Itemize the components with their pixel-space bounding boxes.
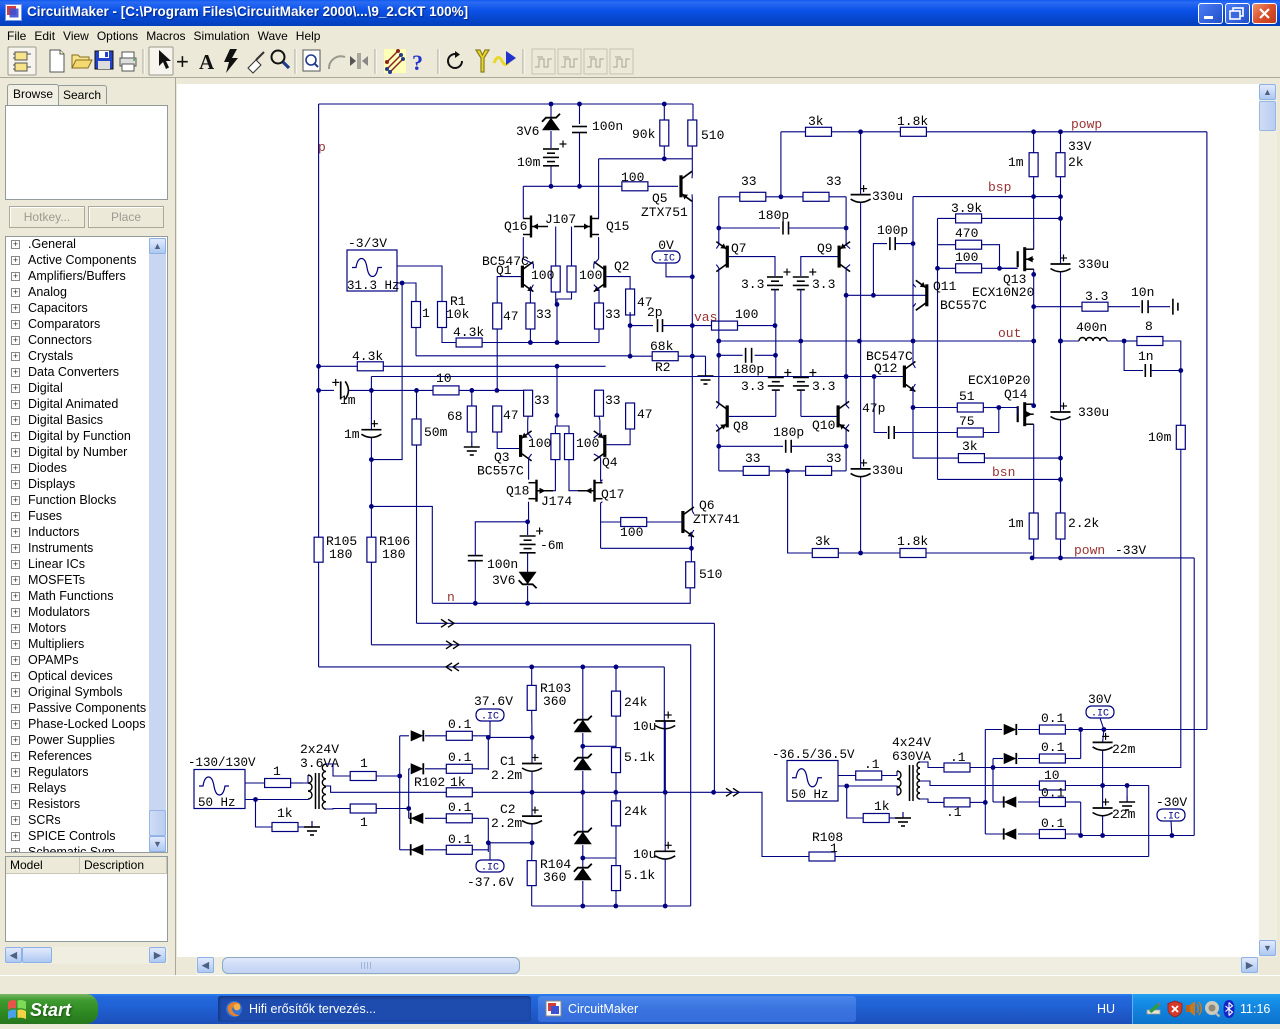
svg-text:3.3: 3.3: [741, 277, 764, 292]
svg-text:BC557C: BC557C: [940, 298, 987, 313]
wire Q11 base row: [846, 294, 927, 296]
capacitor 47p: [874, 377, 887, 433]
wire primary bottom: [256, 799, 304, 801]
battery cap 3.3 #2: [793, 276, 809, 278]
svg-text:10: 10: [1044, 768, 1060, 783]
svg-text:10n: 10n: [1131, 285, 1154, 300]
wire secondary top to 1 ohm: [326, 764, 350, 776]
resistor 33 row1 left: [740, 192, 766, 201]
svg-text:5.1k: 5.1k: [624, 750, 655, 765]
capacitor 330u #4: [1051, 411, 1071, 413]
capacitor 1n: [1124, 341, 1143, 371]
resistor R103 360: [531, 667, 533, 686]
wire Q5 emitter down (vas rail): [691, 194, 693, 276]
svg-text:-37.6V: -37.6V: [467, 875, 514, 890]
wire Q6 collector up to vas rail: [692, 511, 694, 514]
capacitor 330u #3: [1051, 263, 1071, 265]
svg-text:33: 33: [826, 451, 842, 466]
resistor 0.1 (b2 row2): [1039, 754, 1065, 763]
svg-text:22m: 22m: [1112, 807, 1136, 822]
svg-text:Q8: Q8: [733, 419, 749, 434]
wire pown row: [1033, 539, 1035, 558]
wire Q15 drain column: [598, 159, 600, 216]
resistor 1m upper: [1029, 153, 1038, 177]
svg-text:C1: C1: [500, 754, 516, 769]
wire bridge2 verticals: [984, 730, 986, 835]
svg-text:BC557C: BC557C: [477, 464, 524, 479]
wire bsp row: [913, 196, 1061, 198]
svg-text:CircuitMaker: CircuitMaker: [568, 1002, 638, 1016]
capacitor 1m vertical electrolytic: [370, 390, 372, 429]
svg-text:100: 100: [955, 250, 978, 265]
transistor Q6 ZTX741: [681, 511, 684, 533]
transistor Q12 BC547C: [903, 366, 906, 388]
svg-text:100: 100: [620, 525, 643, 540]
wire R106 tap to bus junction: [371, 506, 432, 603]
svg-text:ECX10N20: ECX10N20: [972, 285, 1034, 300]
resistor 3.3 snubber: [1034, 306, 1082, 308]
wire Q16 source down to Q1 collector: [522, 238, 524, 260]
diode bridge1 D2: [409, 768, 410, 770]
wire Q7 collector col down: [716, 265, 719, 341]
svg-text:Q16: Q16: [504, 219, 527, 234]
wire b2 plus join: [1080, 730, 1082, 759]
svg-text:100: 100: [528, 436, 551, 451]
svg-text:47: 47: [637, 407, 653, 422]
svg-text:1.8k: 1.8k: [897, 114, 928, 129]
svg-text:33: 33: [741, 174, 757, 189]
resistor 8: [1124, 340, 1137, 342]
resistor 24k upper: [615, 667, 617, 691]
svg-text:2.2m: 2.2m: [491, 768, 522, 783]
wire 10-net row: [319, 389, 334, 391]
wire source2 minus branch: [838, 786, 863, 818]
svg-text:0.1: 0.1: [1041, 786, 1065, 801]
svg-text:1: 1: [830, 841, 838, 856]
wire bridge1 left verticals: [399, 736, 401, 850]
svg-text:10m: 10m: [517, 155, 541, 170]
wire Q1 emitter to 33: [530, 285, 533, 303]
wire bsn row: [938, 478, 1061, 480]
wire Q15 source down to Q2 collector: [598, 238, 600, 260]
wire Q2 base right to 47: [606, 277, 630, 289]
wire -30V rail: [1081, 835, 1195, 837]
svg-text:33V: 33V: [1068, 139, 1092, 154]
svg-text:Start: Start: [30, 1000, 72, 1020]
wire top rail +: [319, 103, 693, 105]
wire primary2 bottom: [847, 786, 897, 795]
diode bridge2 D8: [985, 833, 1003, 835]
wire bus2 vertical down: [690, 645, 692, 906]
svg-text:180p: 180p: [733, 362, 764, 377]
ground at 1k supply2: [902, 812, 904, 818]
svg-text:Q18: Q18: [506, 484, 529, 499]
wire zener mid to 5.1k: [583, 745, 616, 747]
resistor 10: [433, 386, 459, 395]
wire secondary mid tap: [326, 786, 446, 792]
svg-text:Q14: Q14: [1004, 387, 1028, 402]
svg-text:470: 470: [955, 226, 978, 241]
svg-text:-130/130V: -130/130V: [188, 756, 256, 770]
diode bridge2 D6: [993, 758, 1003, 760]
resistor .1 (sec2 top): [944, 763, 970, 772]
wire mid rail to R108 with >> arrow: [726, 788, 732, 796]
wire Q17 gate to 100: [569, 460, 578, 491]
resistor 1.8k upper: [900, 127, 926, 136]
wire long base line to Q12: [370, 377, 372, 391]
resistor 68 and ground: [471, 390, 473, 406]
svg-text:1n: 1n: [1138, 349, 1154, 364]
wire R105 to bus3: [318, 562, 320, 667]
wire bias rail to Q5 base: [523, 185, 622, 187]
resistor 100 (J107 pair right): [567, 266, 576, 292]
svg-text:37.6V: 37.6V: [474, 694, 513, 709]
wire Q3 emitter from 33: [528, 420, 532, 438]
wire 10m bottom to bridge2: [993, 766, 1181, 767]
capacitor 22m lower: [1102, 786, 1104, 809]
wire Q4 collector down to Q17: [594, 454, 601, 482]
svg-text:400n: 400n: [1076, 320, 1107, 335]
svg-text:out: out: [998, 326, 1021, 341]
wire middle 33 junction down to 3k row: [788, 471, 813, 553]
wire source2 to .1: [838, 775, 856, 777]
jfet Q18 J174: [535, 480, 537, 502]
resistor 33 row2 right: [806, 466, 832, 475]
svg-text:1m: 1m: [1008, 155, 1024, 170]
wire 2k bottom / right column: [1060, 177, 1062, 264]
svg-text:1.8k: 1.8k: [897, 534, 928, 549]
wire Q11 divider column: [937, 218, 939, 268]
svg-text:J107: J107: [545, 212, 576, 227]
svg-text:100: 100: [576, 436, 599, 451]
capacitor 100p: [873, 244, 887, 296]
svg-text:powp: powp: [1071, 117, 1102, 132]
wire Q17 base row to Q6: [601, 521, 621, 523]
resistor 0.1 (b1 row3): [446, 814, 472, 823]
svg-text:bsn: bsn: [992, 465, 1015, 480]
svg-text:180: 180: [329, 547, 352, 562]
wire Q9 emitter col up: [846, 197, 850, 249]
wire Q10 base row: [801, 415, 837, 417]
svg-text:3V6: 3V6: [492, 573, 515, 588]
wire Q14 source down: [1033, 424, 1035, 513]
transistor Q9: [838, 246, 841, 268]
svg-text:2.2m: 2.2m: [491, 816, 522, 831]
wire 33 row2: [719, 470, 743, 472]
wire feedback row: [416, 355, 630, 357]
wire Q1 collector up: [523, 259, 533, 269]
svg-text:C2: C2: [500, 802, 516, 817]
svg-text:0.1: 0.1: [1041, 711, 1065, 726]
svg-text:.IC: .IC: [481, 712, 499, 723]
wire Q14 drain to out: [1033, 341, 1035, 404]
svg-text:Hifi erősítők tervezés...: Hifi erősítők tervezés...: [249, 1002, 376, 1016]
wire bus1 vertical down: [713, 623, 715, 792]
wire Q13 source down to out: [1033, 269, 1035, 341]
resistor 1m lower: [1029, 513, 1038, 539]
svg-text:10: 10: [436, 371, 452, 386]
diode bridge1 D3: [409, 817, 410, 819]
svg-text:n: n: [447, 590, 455, 605]
svg-text:1: 1: [273, 764, 281, 779]
wire vas row to 100: [692, 325, 711, 327]
svg-text:3.3: 3.3: [1085, 289, 1108, 304]
resistor 100 at Q13 gate: [938, 267, 956, 269]
resistor 4.3k upper: [456, 338, 482, 347]
resistor 0.1 (b2 row4): [1039, 830, 1065, 839]
transistor Q1 BC547C: [521, 266, 524, 288]
svg-text:10k: 10k: [446, 307, 470, 322]
svg-text:330u: 330u: [872, 189, 903, 204]
resistor 47 below Q2 base: [626, 289, 635, 315]
svg-text:33: 33: [745, 451, 761, 466]
svg-text:.1: .1: [864, 757, 880, 772]
svg-text:2x24V: 2x24V: [300, 742, 339, 757]
resistor 0.1 (b1 row1): [446, 731, 472, 740]
svg-text:10u: 10u: [633, 847, 656, 862]
svg-text:330u: 330u: [872, 463, 903, 478]
svg-text:2k: 2k: [1068, 155, 1084, 170]
svg-text:bsp: bsp: [988, 180, 1011, 195]
wire bus2 with >> arrow: [371, 644, 690, 646]
svg-text:47: 47: [503, 408, 519, 423]
diode bridge2 D5: [985, 729, 1002, 731]
wire source minus branch: [245, 800, 272, 828]
resistor 33 row2 left: [743, 466, 769, 475]
svg-text:2.2k: 2.2k: [1068, 516, 1099, 531]
wire left border vertical (p net): [318, 104, 320, 537]
svg-text:47: 47: [503, 309, 519, 324]
wire 90k/510 junction row: [599, 158, 693, 160]
resistor 3k upper-right: [913, 408, 958, 459]
svg-text:360: 360: [543, 870, 566, 885]
resistor 1.8k lower: [900, 549, 926, 558]
ground at 1k: [311, 821, 313, 827]
flag .IC -37.6V: [476, 860, 504, 872]
resistor 24k lower: [615, 792, 617, 801]
jfet Q16 J107: [530, 216, 532, 238]
wire zener mid to 5.1k lower: [583, 857, 616, 859]
wire Q15 drain up: [598, 215, 600, 218]
svg-text:-33V: -33V: [1115, 543, 1146, 558]
wire source minus to 1 ohm: [397, 283, 416, 302]
wire 51 row: [913, 407, 957, 409]
resistor 510 lower: [690, 548, 692, 562]
capacitor 180p #1: [719, 227, 780, 229]
resistor 0.1 (b1 row4): [446, 845, 472, 854]
wire 1m bottom to bsp: [1033, 177, 1035, 197]
voltage source -130/130V 50Hz: [194, 770, 245, 809]
svg-text:.IC: .IC: [481, 863, 499, 874]
junction top rail / 100n: [577, 102, 582, 107]
wire 3k to 33-row: [780, 132, 782, 197]
svg-text:510: 510: [701, 128, 724, 143]
wire Q7 base to 3.3 cap: [729, 257, 775, 276]
transistor Q11 BC557C: [925, 284, 928, 306]
svg-text:330u: 330u: [1078, 257, 1109, 272]
resistor 3k upper: [806, 127, 832, 136]
svg-text:180p: 180p: [773, 425, 804, 440]
mosfet Q14 ECX10P20: [1017, 406, 1019, 422]
wire Q13 gate: [1000, 267, 1018, 269]
svg-text:47p: 47p: [862, 401, 885, 416]
wire 510 to n row: [432, 588, 690, 604]
wire source plus to R1: [397, 266, 442, 302]
wire Q6 emitter down: [691, 530, 694, 548]
svg-text:3k: 3k: [962, 439, 978, 454]
wire 50m to bus1: [416, 445, 418, 623]
resistor 3k lower: [812, 549, 838, 558]
svg-text:Q10: Q10: [812, 418, 835, 433]
resistor 100 at Q6 base: [621, 518, 647, 527]
svg-text:24k: 24k: [624, 695, 648, 710]
svg-text:Q9: Q9: [817, 241, 833, 256]
svg-text:180: 180: [382, 547, 405, 562]
wire 1m 2k tops: [1033, 132, 1035, 153]
zener D 3V6 upper: [550, 104, 552, 118]
wire tail column to p-tail row: [556, 304, 558, 342]
svg-text:3V6: 3V6: [516, 124, 539, 139]
wire Q17 drain up: [601, 480, 603, 482]
svg-text:1: 1: [422, 306, 430, 321]
resistor R1 10k: [438, 302, 447, 328]
svg-text:33: 33: [605, 307, 621, 322]
svg-text:0.1: 0.1: [448, 717, 472, 732]
svg-text:360: 360: [543, 694, 566, 709]
svg-text:1m: 1m: [340, 393, 356, 408]
svg-text:ECX10P20: ECX10P20: [968, 373, 1030, 388]
wire Q2 emitter to 33: [594, 285, 599, 303]
wire source to 1 ohm: [245, 782, 265, 784]
ground at R2: [705, 356, 707, 370]
svg-text:11:16: 11:16: [1240, 1002, 1270, 1016]
svg-text:68k: 68k: [650, 339, 674, 354]
diode bridge1 D1: [400, 735, 409, 737]
battery cap 3.3 #4: [800, 390, 802, 416]
svg-text:3.3: 3.3: [812, 379, 835, 394]
svg-text:?: ?: [412, 50, 423, 75]
resistor 47 below Q1 base: [493, 303, 502, 329]
svg-text:A: A: [199, 50, 215, 74]
svg-text:31.3 Hz: 31.3 Hz: [347, 279, 400, 293]
svg-text:pown: pown: [1074, 543, 1105, 558]
wire Q11 bank to bsn: [937, 268, 939, 479]
resistor 1k to ground: [272, 823, 298, 832]
resistor 75: [957, 428, 983, 437]
diode bridge2 D7: [993, 801, 1003, 803]
svg-text:Q1: Q1: [496, 263, 512, 278]
capacitor 2p: [630, 325, 653, 327]
capacitor 330u #1: [860, 132, 862, 195]
capacitor 10n: [1141, 300, 1143, 313]
capacitor 22m upper: [1103, 730, 1104, 743]
svg-text:1: 1: [360, 815, 368, 830]
svg-text:1k: 1k: [450, 775, 466, 790]
wire p-side tail row: [442, 342, 599, 344]
transistor Q2 BC547C: [603, 266, 606, 288]
wire secondary2 bottom: [920, 799, 944, 802]
resistor 1 (input): [412, 302, 421, 328]
resistor .1 (sec2 bottom): [944, 798, 970, 807]
svg-text:8: 8: [1145, 319, 1153, 334]
capacitor 10u lower: [664, 792, 666, 851]
transistor Q7: [726, 246, 729, 268]
wire bus3 vertical down: [663, 667, 665, 792]
resistor 1k (supply2): [863, 814, 889, 823]
resistor 90k: [663, 104, 665, 120]
resistor 33 above Q4: [595, 390, 604, 416]
battery cap 3.3 #1: [767, 276, 783, 278]
wire Q9 base to 3.3 cap: [801, 257, 838, 276]
svg-text:100: 100: [579, 268, 602, 283]
zener pair lower (chain2): [582, 792, 584, 832]
resistor 0.1 (b1 row2): [446, 764, 472, 773]
resistor 10 (supply2): [1039, 781, 1065, 790]
resistor 47 above Q4 base: [626, 403, 635, 429]
svg-text:p: p: [318, 140, 326, 155]
wire bottom rail supply1: [532, 905, 691, 907]
capacitor 180p #2: [719, 354, 743, 356]
resistor R106 180: [367, 537, 376, 562]
wire Q8 emitter col down: [716, 424, 719, 471]
wire Q12 emitter down: [913, 384, 915, 408]
wire Q1 base left to 47: [497, 277, 521, 303]
wire Q15 gate down to 100 resistor: [571, 227, 573, 267]
wire source minus branch down: [371, 283, 402, 460]
resistor R108 1: [809, 852, 835, 861]
svg-text:100: 100: [735, 307, 758, 322]
junction top rail / zener column: [549, 102, 554, 107]
svg-text:68: 68: [447, 409, 463, 424]
wire Q7 emitter col up: [716, 197, 719, 249]
capacitor 100n lower: [474, 561, 476, 604]
svg-text:Q17: Q17: [601, 487, 624, 502]
wire R108 return up: [1148, 786, 1150, 857]
svg-text:-30V: -30V: [1156, 795, 1187, 810]
svg-text:75: 75: [959, 414, 975, 429]
wire Q10 emitter col down: [846, 424, 849, 471]
svg-text:3.9k: 3.9k: [951, 201, 982, 216]
capacitor 330u #2: [860, 477, 862, 554]
svg-text:1k: 1k: [277, 806, 293, 821]
svg-text:.1: .1: [950, 750, 966, 765]
wire Q18 gate up to 100: [553, 460, 555, 491]
svg-text:Q2: Q2: [614, 259, 630, 274]
svg-text:Q11: Q11: [933, 279, 957, 294]
wire 33 row upper: [719, 196, 740, 198]
svg-text:100p: 100p: [877, 223, 908, 238]
wire Q8 collector col up: [716, 341, 719, 408]
wire 100 pair bottoms join: [555, 292, 557, 304]
svg-text:+: +: [176, 49, 189, 74]
resistor R105 180: [314, 537, 323, 562]
wire R1 bottom to 4.3k: [442, 328, 456, 343]
svg-text:.1: .1: [946, 805, 962, 820]
svg-text:33: 33: [605, 393, 621, 408]
resistor 33 below Q2: [595, 303, 604, 329]
svg-text:.IC: .IC: [1162, 812, 1180, 823]
svg-text:50 Hz: 50 Hz: [198, 796, 236, 810]
wire vas column: [691, 277, 693, 511]
svg-text:30V: 30V: [1088, 692, 1112, 707]
zener pair upper (chain1): [582, 667, 584, 720]
svg-text:3k: 3k: [808, 114, 824, 129]
wire base line into Q12: [846, 376, 903, 378]
resistor 5.1k upper: [612, 748, 621, 773]
wire J174 100 tops join: [555, 415, 557, 433]
resistor R104 360: [531, 843, 533, 861]
wire Q18 drain up: [528, 478, 530, 480]
